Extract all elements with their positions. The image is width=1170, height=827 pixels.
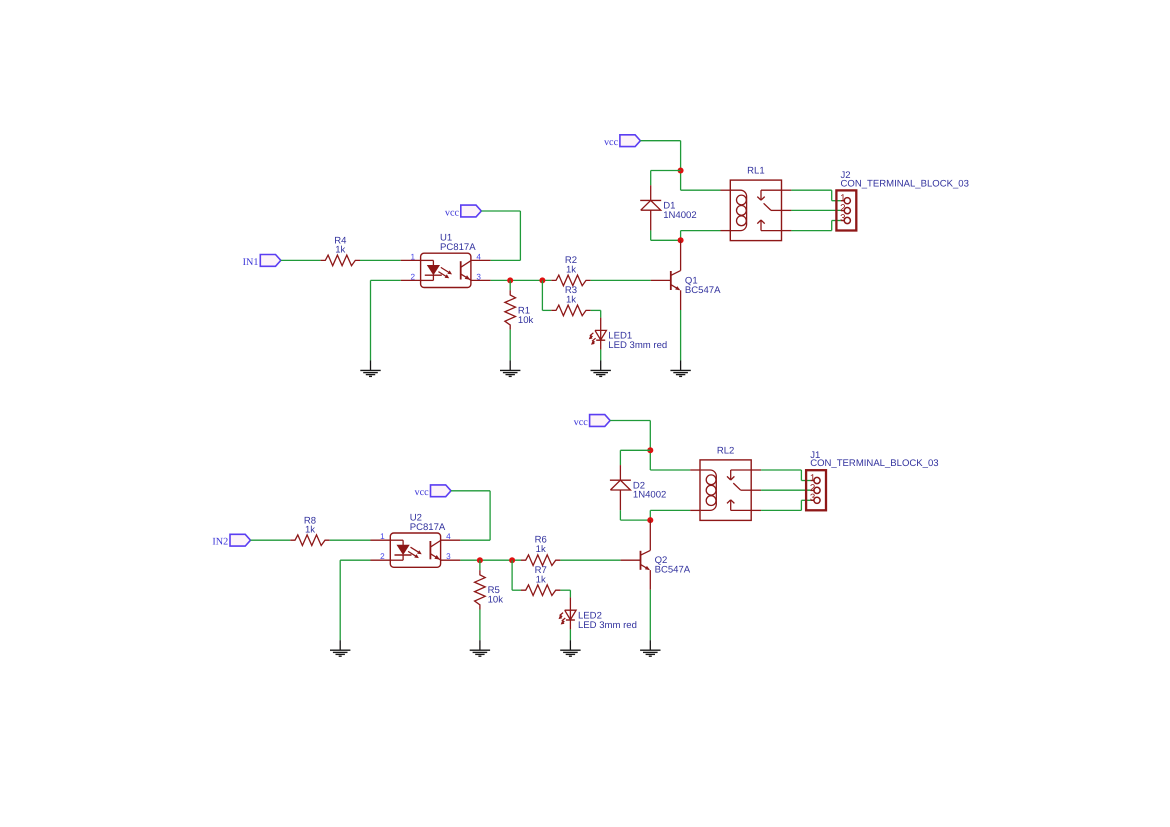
svg-text:BC547A: BC547A xyxy=(655,565,691,576)
svg-text:1k: 1k xyxy=(536,544,546,555)
Q2 name label xyxy=(655,555,668,566)
junction node vcc/D1 xyxy=(678,168,684,174)
U2 value label PC817A xyxy=(410,522,446,533)
svg-text:2: 2 xyxy=(410,272,415,281)
svg-text:IN1: IN1 xyxy=(243,257,259,268)
D2 value label 1N4002 xyxy=(633,490,666,501)
LED LED1 (LED 3mm red) xyxy=(589,318,607,350)
channel 1: opto-isolated relay driver xyxy=(243,135,969,377)
wire RL1 common to J2 pin 2 xyxy=(791,209,841,211)
wire U1 pin 3 to R2 xyxy=(491,279,552,281)
svg-text:1k: 1k xyxy=(566,264,576,275)
ground (R1) xyxy=(500,360,520,376)
relay RL2 xyxy=(690,460,761,521)
port vcc (relay coil supply) xyxy=(604,135,640,148)
svg-text:PC817A: PC817A xyxy=(410,522,446,533)
relay RL1 xyxy=(721,180,792,241)
junction node pin3/R5 xyxy=(477,557,483,563)
R1 value label 10k xyxy=(518,315,534,326)
Q2 value label BC547A xyxy=(655,565,691,576)
resistor R6 body xyxy=(521,555,560,566)
R6 name label xyxy=(535,535,547,546)
RL2 name label xyxy=(717,445,735,456)
svg-text:1k: 1k xyxy=(536,575,546,586)
R2 name label xyxy=(565,255,577,266)
wire junction to R1 xyxy=(509,280,511,290)
port vcc (opto collector supply) xyxy=(445,205,481,218)
ground (opto input return) xyxy=(360,360,380,376)
diode D1 1N4002 xyxy=(640,185,661,230)
wire R4 to U1 pin 1 xyxy=(360,259,401,261)
wire Q2 emitter to ground xyxy=(649,590,651,640)
resistor R3 body xyxy=(551,305,590,316)
wire R6 to Q2 base xyxy=(560,559,620,561)
RL1 name label xyxy=(747,166,765,177)
J1 name label xyxy=(810,450,820,461)
R4 name label xyxy=(334,236,347,247)
port vcc (opto collector supply) xyxy=(415,485,451,498)
port vcc (relay coil supply) xyxy=(574,415,610,428)
svg-text:BC547A: BC547A xyxy=(685,285,721,296)
svg-text:CON_TERMINAL_BLOCK_03: CON_TERMINAL_BLOCK_03 xyxy=(810,458,938,469)
R2 value label 1k xyxy=(566,264,576,275)
ground (Q2 emitter) xyxy=(640,640,660,656)
wire RL2 NC contact to J1 pin 1 xyxy=(761,470,811,481)
wire U2 pin 3 to R6 xyxy=(460,559,521,561)
wire vcc junction to D2 cathode xyxy=(620,450,650,465)
J1 value label CON_TERMINAL_BLOCK_03 xyxy=(810,458,938,469)
svg-text:3: 3 xyxy=(446,552,451,561)
junction node D2/Q2 collector xyxy=(647,517,653,523)
svg-text:1N4002: 1N4002 xyxy=(663,210,696,221)
svg-text:3: 3 xyxy=(476,272,481,281)
U2 pin numbers 1 2 3 4 xyxy=(380,532,451,561)
D1 value label 1N4002 xyxy=(663,210,696,221)
R1 name label xyxy=(518,305,530,316)
R7 value label 1k xyxy=(536,575,546,586)
svg-text:4: 4 xyxy=(476,252,481,261)
R3 value label 1k xyxy=(566,295,576,306)
svg-text:1: 1 xyxy=(410,252,415,261)
wire junction to R5 xyxy=(479,560,481,570)
svg-text:10k: 10k xyxy=(488,595,504,606)
wire junction to R3 xyxy=(542,280,551,310)
svg-text:RL1: RL1 xyxy=(747,166,765,177)
svg-text:LED 3mm red: LED 3mm red xyxy=(578,620,637,631)
ground (LED2) xyxy=(560,640,580,656)
wire U2 pin 2 to ground xyxy=(340,560,370,640)
D2 name label xyxy=(633,480,645,491)
optocoupler U1 PC817A xyxy=(401,253,491,287)
wire IN2 to R8 xyxy=(250,539,290,541)
J2 value label CON_TERMINAL_BLOCK_03 xyxy=(841,178,969,189)
wire relay coil bottom xyxy=(650,510,690,520)
svg-text:vcc: vcc xyxy=(445,207,460,218)
R8 name label xyxy=(304,515,316,526)
wire LED1 to ground xyxy=(600,350,602,361)
wire Q1 emitter to ground xyxy=(680,310,682,360)
wire vcc to U2 pin 4 xyxy=(451,491,490,540)
D1 name label xyxy=(663,201,675,212)
junction node D1/Q1 collector xyxy=(678,237,684,243)
channel 2: opto-isolated relay driver xyxy=(212,415,938,657)
U1 value label PC817A xyxy=(440,242,476,253)
wire RL1 NO contact to J2 pin 3 xyxy=(791,221,841,231)
optocoupler U2 PC817A xyxy=(371,533,461,567)
resistor R8 body xyxy=(290,535,329,546)
resistor R1 body xyxy=(505,290,516,329)
wire vcc rail to relay coil xyxy=(610,421,690,471)
transistor Q1 BC547A xyxy=(651,240,681,310)
connector J1 terminal block xyxy=(806,470,826,510)
LED1 value label LED 3mm red xyxy=(608,340,667,351)
junction node vcc/D2 xyxy=(647,447,653,453)
LED2 name label xyxy=(578,610,602,621)
wire R3 to LED1 xyxy=(591,310,601,317)
svg-text:RL2: RL2 xyxy=(717,445,735,456)
wire R8 to U2 pin 1 xyxy=(330,539,371,541)
ground (opto input return) xyxy=(330,640,350,656)
ground (Q1 emitter) xyxy=(670,360,690,376)
svg-text:vcc: vcc xyxy=(604,137,619,148)
svg-text:1k: 1k xyxy=(335,245,345,256)
wire D2 anode to collector node xyxy=(620,510,650,520)
wire vcc rail to relay coil xyxy=(640,141,720,191)
junction node pin3/R1 xyxy=(507,277,513,283)
wire IN1 to R4 xyxy=(281,259,321,261)
junction node pin3/R7 xyxy=(509,557,515,563)
svg-text:2: 2 xyxy=(380,552,385,561)
J2 pin numbers 1 2 3 xyxy=(840,193,846,224)
R5 value label 10k xyxy=(488,595,504,606)
LED LED2 (LED 3mm red) xyxy=(559,597,577,629)
svg-text:IN2: IN2 xyxy=(212,537,228,548)
diode D2 1N4002 xyxy=(610,465,631,510)
R6 value label 1k xyxy=(536,544,546,555)
wire RL1 NC contact to J2 pin 1 xyxy=(791,190,841,201)
R8 value label 1k xyxy=(305,525,315,536)
U1 pin numbers 1 2 3 4 xyxy=(410,252,481,281)
wire R5 to ground xyxy=(479,610,481,641)
U2 name label xyxy=(410,512,422,523)
U1 name label xyxy=(440,233,452,244)
R5 name label xyxy=(488,585,500,596)
wire LED2 to ground xyxy=(569,629,571,640)
svg-text:1k: 1k xyxy=(305,525,315,536)
svg-text:1N4002: 1N4002 xyxy=(633,490,666,501)
ground (LED1) xyxy=(591,360,611,376)
R4 value label 1k xyxy=(335,245,345,256)
LED2 value label LED 3mm red xyxy=(578,620,637,631)
wire vcc to U1 pin 4 xyxy=(481,211,520,260)
svg-text:3: 3 xyxy=(810,493,816,504)
wire R1 to ground xyxy=(509,330,511,361)
resistor R5 body xyxy=(475,570,486,609)
connector J2 terminal block xyxy=(836,190,856,230)
J2 name label xyxy=(841,170,851,181)
svg-text:LED 3mm red: LED 3mm red xyxy=(608,340,667,351)
wire D1 anode to collector node xyxy=(651,230,681,240)
svg-text:PC817A: PC817A xyxy=(440,242,476,253)
J1 pin numbers 1 2 3 xyxy=(810,473,816,504)
port IN1 (input net label) xyxy=(243,255,281,268)
port IN2 (input net label) xyxy=(212,534,250,547)
svg-text:vcc: vcc xyxy=(415,487,430,498)
Q1 name label xyxy=(685,275,698,286)
svg-text:3: 3 xyxy=(840,213,846,224)
resistor R2 body xyxy=(551,275,590,286)
wire relay coil bottom xyxy=(681,231,721,241)
svg-text:1: 1 xyxy=(380,532,385,541)
resistor R7 body xyxy=(521,585,560,596)
svg-text:1k: 1k xyxy=(566,295,576,306)
R3 name label xyxy=(565,285,577,296)
wire RL2 NO contact to J1 pin 3 xyxy=(761,500,811,510)
LED1 name label xyxy=(608,331,632,342)
transistor Q2 BC547A xyxy=(621,520,651,590)
svg-text:vcc: vcc xyxy=(574,417,589,428)
ground (R5) xyxy=(470,640,490,656)
wire junction to R7 xyxy=(512,560,521,590)
junction node pin3/R3 xyxy=(539,277,545,283)
R7 name label xyxy=(535,565,547,576)
wire vcc junction to D1 cathode xyxy=(651,171,681,186)
wire RL2 common to J1 pin 2 xyxy=(761,489,811,491)
svg-text:4: 4 xyxy=(446,532,451,541)
svg-text:CON_TERMINAL_BLOCK_03: CON_TERMINAL_BLOCK_03 xyxy=(841,178,969,189)
wire R7 to LED2 xyxy=(560,590,570,597)
wire U1 pin 2 to ground xyxy=(371,280,401,360)
wire R2 to Q1 base xyxy=(591,279,651,281)
Q1 value label BC547A xyxy=(685,285,721,296)
svg-text:10k: 10k xyxy=(518,315,534,326)
resistor R4 body xyxy=(321,255,360,266)
